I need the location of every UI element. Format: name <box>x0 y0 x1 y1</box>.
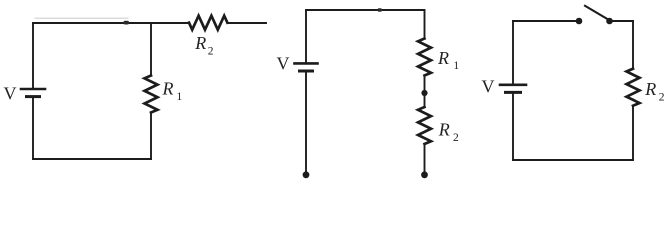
battery V (circuit 1) short plate <box>27 95 40 98</box>
switch S1 right contact dot <box>606 18 613 25</box>
wire: circuit 1 middle branch upper <box>150 23 152 76</box>
wire: circuit 3 right rail lower <box>632 106 634 160</box>
svg-text:R: R <box>162 79 174 99</box>
resistor R1 (circuit 1) zigzag <box>145 76 158 113</box>
svg-text:R: R <box>644 79 656 99</box>
junction node dot between R1 and R2 (circuit 2) <box>421 90 427 96</box>
wire: circuit 1 left side above battery <box>32 23 34 88</box>
wire: circuit 2 right rail upper <box>424 10 426 39</box>
wire: circuit 2 right rail lower <box>424 144 426 172</box>
battery V (circuit 3) long plate <box>500 84 526 87</box>
resistor R2 (circuit 3) zigzag <box>627 69 640 106</box>
resistor R1 (circuit 2) zigzag <box>418 39 431 76</box>
svg-text:2: 2 <box>659 92 665 104</box>
wire: circuit 1 middle branch lower <box>150 113 152 160</box>
terminal node dot (circuit 2 left, bottom) <box>303 171 310 178</box>
wire: circuit 3 right rail upper <box>632 21 634 69</box>
svg-text:1: 1 <box>177 91 183 103</box>
svg-text:R: R <box>438 119 450 139</box>
battery V (circuit 1) long plate <box>21 88 45 91</box>
battery V (circuit 2) short plate <box>300 70 313 73</box>
resistor R2 (circuit 1) zigzag <box>189 16 227 30</box>
wire: circuit 2 between R1 and junction <box>424 76 426 108</box>
svg-text:1: 1 <box>453 60 459 72</box>
wire: circuit 3 top right segment from switch <box>610 20 634 22</box>
svg-text:V: V <box>4 84 17 104</box>
wire: circuit 3 bottom side <box>513 159 633 161</box>
switch S1 lever (open) <box>585 6 609 20</box>
wire: circuit 3 left rail lower <box>512 94 514 160</box>
wire: circuit 1 bottom side <box>33 158 151 160</box>
battery V (circuit 2) long plate <box>295 62 318 65</box>
faint scan ghost above circuit 1 top wire <box>35 17 128 19</box>
wire: circuit 2 top side <box>306 9 425 11</box>
node tick on circuit 2 top wire <box>378 8 383 11</box>
svg-text:2: 2 <box>208 46 214 58</box>
switch S1 left contact dot <box>576 18 583 25</box>
node tick on circuit 1 top wire <box>124 21 130 25</box>
wire: circuit 3 left rail upper <box>512 21 514 83</box>
svg-text:V: V <box>277 54 290 74</box>
wire: circuit 1 left side below battery <box>32 98 34 159</box>
terminal node dot (circuit 2 right, bottom) <box>421 171 428 178</box>
resistor R2 (circuit 2) zigzag <box>418 107 431 144</box>
wire: circuit 1 output lead right of R2 <box>227 22 266 24</box>
wire: circuit 2 left rail upper <box>305 10 307 62</box>
wire: circuit 2 left rail lower <box>305 72 307 172</box>
wire: circuit 1 top horizontal <box>33 22 189 24</box>
svg-text:R: R <box>437 48 449 68</box>
svg-text:R: R <box>194 33 206 53</box>
wire: circuit 3 top left segment to switch <box>513 20 579 22</box>
battery V (circuit 3) short plate <box>506 91 521 94</box>
svg-text:V: V <box>482 77 495 97</box>
svg-text:2: 2 <box>453 132 459 144</box>
